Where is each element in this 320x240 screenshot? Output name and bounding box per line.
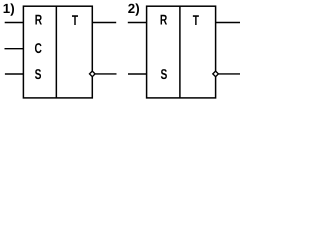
wire U1 output notQ xyxy=(95,73,116,75)
wire U2 output Q xyxy=(216,22,240,24)
wire U2 output notQ xyxy=(219,73,241,75)
wire U1 input S xyxy=(5,73,24,75)
trigger U1 body xyxy=(23,6,92,98)
wire U1 input R xyxy=(5,22,24,24)
wire U1 input C xyxy=(5,48,24,50)
wire U2 input S xyxy=(128,73,147,75)
trigger U2 body xyxy=(147,6,216,98)
svg-text:R: R xyxy=(160,13,167,29)
inversion diamond U1 xyxy=(90,71,96,77)
U1 column divider xyxy=(55,6,57,98)
svg-text:T: T xyxy=(72,13,78,29)
svg-text:S: S xyxy=(160,67,167,83)
wire U1 output Q xyxy=(92,22,116,24)
svg-text:2): 2) xyxy=(128,1,140,16)
svg-text:C: C xyxy=(35,41,42,57)
wire U2 input R xyxy=(128,22,147,24)
svg-text:1): 1) xyxy=(3,1,15,16)
svg-text:T: T xyxy=(193,13,199,29)
svg-text:S: S xyxy=(35,67,42,83)
inversion diamond U2 xyxy=(213,71,219,77)
U2 column divider xyxy=(179,6,181,98)
svg-text:R: R xyxy=(35,13,42,29)
